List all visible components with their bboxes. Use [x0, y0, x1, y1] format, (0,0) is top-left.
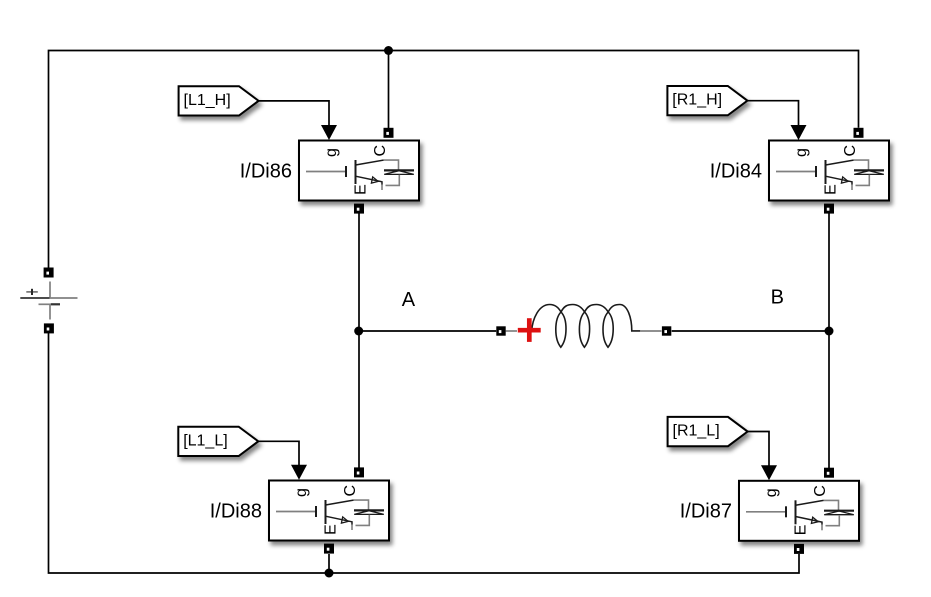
I/Di88 E port: [324, 544, 334, 554]
gate bar: [815, 166, 817, 177]
L1 right gray lead: [640, 330, 661, 332]
IGBT/Diode block I/Di88: body: [269, 481, 389, 541]
V1 + port: [44, 268, 54, 278]
collector lead: [796, 500, 824, 505]
collector-to-diode connector: [354, 500, 369, 510]
I/Di84 E port: [824, 204, 834, 214]
From tag [L1_L]: [178, 427, 258, 456]
diode anode connector: [826, 515, 840, 526]
IGBT body bar: [325, 500, 327, 524]
svg-text:E: E: [792, 525, 809, 536]
emitter stub: [851, 185, 853, 191]
gate bar: [345, 166, 347, 177]
arrowhead into I/Di87 gate: [761, 465, 777, 480]
IGBT body bar: [795, 500, 797, 524]
junction node top rail: [384, 46, 393, 55]
wire: I/Di88 E to bottom rail: [328, 554, 330, 573]
gate bar: [315, 506, 317, 517]
I/Di87 internal symbol: [746, 485, 854, 535]
diode triangle: [824, 511, 854, 515]
emitter stub: [381, 185, 383, 191]
wire: inductor to node B: [672, 330, 829, 332]
V1 negative lead: [49, 305, 51, 320]
V1 plus sign: [26, 291, 38, 293]
collector lead: [326, 500, 354, 505]
svg-text:g: g: [323, 148, 340, 157]
diode triangle: [354, 511, 384, 515]
V1 - port: [44, 323, 54, 333]
IGBT/Diode block I/Di86: body: [299, 141, 419, 201]
svg-text:[L1_L]: [L1_L]: [183, 432, 227, 449]
arrowhead into I/Di88 gate: [291, 465, 307, 480]
svg-text:E: E: [822, 184, 839, 195]
arrowhead into I/Di84 gate: [791, 125, 807, 140]
svg-text:I/Di87: I/Di87: [680, 501, 732, 523]
IGBT body bar: [825, 160, 827, 184]
gate lead: [746, 511, 786, 513]
junction node A: [354, 327, 363, 336]
arrowhead into I/Di86 gate: [321, 125, 337, 140]
From tag [L1_H]: [179, 86, 259, 115]
svg-text:I/Di88: I/Di88: [210, 501, 262, 523]
I/Di88 internal symbol: [276, 485, 384, 535]
current measurement + marker: [518, 318, 541, 342]
diode cathode bar: [854, 169, 884, 171]
wire: battery minus down and bottom rail across: [49, 333, 800, 573]
svg-text:[R1_L]: [R1_L]: [673, 423, 720, 440]
svg-text:I/Di84: I/Di84: [710, 161, 762, 183]
I/Di88 C port: [354, 467, 364, 477]
svg-text:C: C: [342, 485, 359, 497]
L1 left port: [496, 326, 505, 335]
DC voltage source V1: [20, 268, 77, 334]
diode cathode bar: [824, 510, 854, 512]
collector-to-diode connector: [384, 160, 399, 170]
diode triangle: [384, 171, 414, 175]
emitter lead: [326, 516, 353, 524]
emitter arrow: [811, 517, 818, 523]
collector-to-diode connector: [854, 160, 869, 170]
diode anode connector: [356, 515, 370, 526]
L1 right port: [662, 326, 671, 335]
emitter arrow: [371, 177, 378, 183]
inductor L1: [496, 305, 671, 348]
gate bar: [785, 506, 787, 517]
emitter lead: [356, 176, 383, 184]
V1 positive plate: [20, 297, 49, 299]
wire: [R1_H] to I/Di84 gate: [747, 101, 798, 126]
junction node bottom rail: [325, 569, 334, 578]
emitter arrow: [841, 177, 848, 183]
L1 coil: [532, 305, 641, 348]
svg-text:A: A: [402, 289, 416, 311]
svg-text:C: C: [372, 145, 389, 157]
wire: node A to inductor: [359, 330, 497, 332]
I/Di86 E port: [354, 204, 364, 214]
svg-text:E: E: [322, 524, 339, 535]
svg-text:E: E: [352, 184, 369, 195]
wire: I/Di86 E down to node A: [358, 214, 360, 332]
emitter stub: [351, 525, 353, 531]
IGBT body bar: [355, 160, 357, 184]
svg-text:C: C: [842, 145, 859, 157]
emitter lead: [796, 517, 823, 525]
svg-text:C: C: [812, 485, 829, 497]
wire: top rail drop to I/Di86 C: [388, 51, 390, 129]
emitter lead: [826, 176, 853, 184]
wire: battery plus up and top rail across: [49, 51, 859, 273]
IGBT/Diode block I/Di87: body: [739, 481, 859, 541]
diode cathode bar: [384, 169, 414, 171]
svg-text:g: g: [793, 148, 810, 157]
IGBT/Diode block I/Di84: body: [769, 141, 889, 201]
svg-text:I/Di86: I/Di86: [240, 161, 292, 183]
wire: [R1_L] to I/Di87 gate: [748, 432, 769, 467]
diode triangle: [854, 171, 884, 175]
gate lead: [276, 511, 316, 513]
emitter stub: [821, 525, 823, 531]
wire: I/Di84 E through node B to I/Di87 C: [828, 214, 830, 469]
svg-text:[L1_H]: [L1_H]: [184, 92, 231, 109]
From tag [R1_L]: [668, 417, 748, 446]
collector lead: [826, 160, 854, 165]
gate lead: [306, 171, 346, 173]
diode cathode bar: [354, 509, 384, 511]
wire: [L1_L] to I/Di88 gate: [258, 441, 299, 465]
From tag [R1_H]: [667, 86, 747, 115]
svg-text:g: g: [763, 488, 780, 497]
I/Di87 C port: [824, 468, 834, 478]
gate lead: [776, 171, 816, 173]
junction node B: [825, 327, 834, 336]
wire: node A down to I/Di88 C: [358, 331, 360, 468]
svg-text:B: B: [771, 287, 784, 309]
emitter arrow: [341, 517, 348, 523]
V1 positive lead: [49, 282, 51, 298]
collector lead: [356, 160, 384, 165]
wire: [L1_H] to I/Di86 gate: [259, 101, 329, 126]
collector-to-diode connector: [824, 500, 839, 510]
diode anode connector: [386, 175, 400, 186]
svg-text:g: g: [293, 488, 310, 497]
I/Di86 internal symbol: [306, 145, 414, 195]
svg-text:[R1_H]: [R1_H]: [672, 92, 722, 109]
I/Di86 C port: [384, 128, 394, 138]
V1 negative plate: [39, 303, 51, 305]
I/Di87 E port: [794, 544, 804, 554]
I/Di84 C port: [854, 128, 864, 138]
L1 left gray lead: [506, 330, 517, 332]
diode anode connector: [856, 175, 870, 186]
I/Di84 internal symbol: [776, 145, 884, 195]
